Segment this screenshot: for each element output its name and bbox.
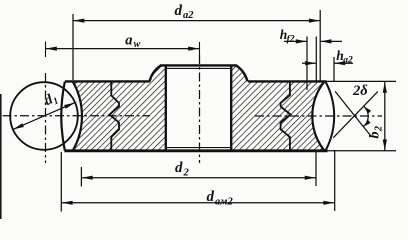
- 2delta construction lines: [335, 91, 371, 135]
- svg-text:a2: a2: [183, 10, 194, 21]
- dimension h_f2: [306, 37, 308, 91]
- dimension h_a2: [333, 57, 335, 81]
- dimension a_w: [46, 48, 200, 50]
- right throat concave arc: [312, 81, 324, 150]
- right zigzag joint: [281, 81, 291, 150]
- dimension b2: [325, 80, 397, 82]
- svg-text:f2: f2: [287, 35, 295, 45]
- hatched section: left rim: [73, 81, 119, 150]
- 2delta angle arc: [363, 106, 368, 126]
- right barrel arc (blank outline): [326, 82, 335, 151]
- svg-text:a: a: [125, 32, 132, 48]
- dimension d_a2: [72, 14, 74, 80]
- dimension d1 line: [13, 103, 75, 130]
- hub step left: [150, 66, 161, 82]
- worm axis vertical dash-dot: [45, 73, 47, 163]
- hatched section: center-right disc and hub: [231, 66, 290, 151]
- svg-text:ам2: ам2: [215, 196, 233, 207]
- hatched section: right rim: [281, 81, 325, 150]
- hub top edge: [160, 64, 237, 66]
- label d1: [42, 89, 60, 110]
- wheel axis solid extension up: [199, 42, 201, 56]
- left barrel arc (blank outline): [61, 82, 64, 151]
- dimension d_am2: [60, 152, 62, 212]
- worm circle d1: [10, 82, 78, 150]
- hatched section: center-left disc and hub: [110, 66, 166, 151]
- top edge right rim: [248, 80, 327, 82]
- worm axis horizontal dash-dot: [3, 115, 151, 117]
- svg-text:d: d: [175, 3, 183, 19]
- left throat concave arc: [73, 81, 82, 150]
- left zigzag joint: [110, 81, 120, 150]
- hub step right: [237, 66, 248, 82]
- bore right wall: [230, 66, 232, 150]
- wheel axis vertical dash-dot: [199, 55, 201, 163]
- svg-text:d: d: [175, 160, 183, 176]
- svg-text:2δ: 2δ: [352, 83, 368, 99]
- top edge left rim: [65, 80, 150, 82]
- svg-text:w: w: [134, 39, 141, 50]
- svg-text:a2: a2: [343, 55, 353, 65]
- worm axis solid extension up: [45, 42, 47, 58]
- svg-text:2: 2: [183, 168, 190, 179]
- bore bottom chamfer line: [167, 147, 230, 149]
- dimension d2: [80, 167, 82, 187]
- mid-plane dash-dot right: [255, 115, 382, 117]
- svg-text:d: d: [207, 189, 215, 205]
- svg-text:2: 2: [374, 126, 385, 132]
- bottom edge: [64, 149, 327, 152]
- scan page edge artifact: [0, 94, 2, 219]
- bore top chamfer line: [167, 67, 230, 69]
- label b2: [368, 126, 385, 139]
- bore left wall: [165, 66, 167, 150]
- svg-text:b: b: [368, 132, 383, 139]
